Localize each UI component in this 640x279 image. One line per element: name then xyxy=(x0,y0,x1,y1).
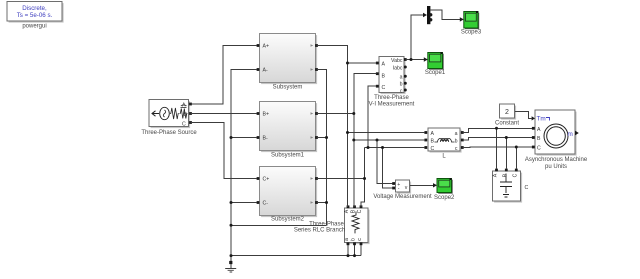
subsystem1 block (phase B) xyxy=(260,102,318,159)
svg-text:Three-Phase Source: Three-Phase Source xyxy=(141,130,197,136)
subsystem1 B+ in port xyxy=(257,112,260,115)
svg-text:Tm: Tm xyxy=(537,116,546,123)
svg-text:c: c xyxy=(357,238,363,241)
demux output to scope3 xyxy=(430,10,460,19)
junction Vabc to demux xyxy=(410,58,413,61)
subsystem2 out1 port xyxy=(315,177,318,180)
junction RLC bottom b on neutral xyxy=(353,254,356,257)
V-I measurement Iabc unconnected port xyxy=(404,66,407,69)
neutral branch to out2 return bus xyxy=(231,224,327,226)
neutral junction at bottom wire xyxy=(230,254,233,257)
L out port a xyxy=(461,131,464,134)
subsystem1 out1 wire to node B xyxy=(317,113,354,115)
V-I measurement in port B xyxy=(376,72,379,75)
node C wire to L C xyxy=(365,147,425,149)
RLC branch top port C xyxy=(360,205,363,208)
svg-text:Subsystem: Subsystem xyxy=(273,85,303,91)
voltage measurement + port xyxy=(392,182,395,185)
junction C-block tap A xyxy=(495,127,498,130)
neutral junction at B- xyxy=(230,136,233,139)
voltage measurement - tap wire xyxy=(383,148,393,189)
L out port c xyxy=(461,146,464,149)
svg-text:B: B xyxy=(184,112,188,118)
machine m output arrow xyxy=(575,131,579,136)
svg-text:A: A xyxy=(493,173,499,177)
RLC bottom a to neutral xyxy=(347,245,349,256)
junction VM+ on L B line xyxy=(376,139,379,142)
svg-text:B-: B- xyxy=(263,136,268,142)
subsystem out2 port xyxy=(315,68,318,71)
subsystem2 out1 wire to node C xyxy=(317,178,365,180)
svg-text:b: b xyxy=(455,139,458,145)
subsystem2 out2 wire xyxy=(317,202,327,204)
neutral net vertical wire xyxy=(231,70,257,262)
neutral junction at C- xyxy=(230,201,233,204)
machine Tm input arrow xyxy=(532,116,535,120)
V-I measurement in port C xyxy=(376,85,379,88)
tap down to C block B xyxy=(505,138,507,169)
machine port C xyxy=(532,146,535,149)
demux xyxy=(427,6,432,24)
V-I measurement b unconnected port xyxy=(404,82,407,85)
RLC branch bottom port c xyxy=(360,242,363,245)
node B tap to L B xyxy=(354,139,425,141)
svg-text:B: B xyxy=(382,73,386,79)
L a to machine A wire xyxy=(463,128,533,132)
RLC branch bottom port a xyxy=(347,242,350,245)
ground symbol xyxy=(225,264,236,272)
svg-text:Subsystem1: Subsystem1 xyxy=(271,153,305,159)
C block top port B xyxy=(505,169,508,172)
svg-text:A: A xyxy=(382,61,386,67)
inductor block L xyxy=(428,128,462,159)
neutral bottom wire to RLC branch xyxy=(231,255,361,257)
svg-text:A: A xyxy=(537,127,541,133)
svg-text:Scope3: Scope3 xyxy=(461,30,482,36)
subsystem1 out1 port xyxy=(315,112,318,115)
node A tap to L A xyxy=(348,132,425,134)
return bus junction subsystem2 out2 xyxy=(325,201,328,204)
svg-text:a: a xyxy=(400,74,403,80)
V-I measurement a unconnected port xyxy=(404,75,407,78)
svg-text:Series RLC Branch: Series RLC Branch xyxy=(294,227,345,233)
machine port B xyxy=(532,136,535,139)
voltage measurement block xyxy=(373,180,432,200)
svg-text:C-: C- xyxy=(263,201,269,207)
machine port A xyxy=(532,127,535,130)
svg-text:pu Units: pu Units xyxy=(545,164,567,170)
subsystem1 B- in port xyxy=(257,136,260,139)
svg-text:b: b xyxy=(400,81,403,87)
node B wire: V-I B corner down to RLC B xyxy=(354,74,377,207)
node C junction subsystem2 out1 xyxy=(363,177,366,180)
tap down to C block A xyxy=(496,128,498,168)
svg-text:B: B xyxy=(537,136,541,142)
L in port B xyxy=(424,139,427,142)
return bus junction subsystem1 out2 xyxy=(325,136,328,139)
svg-text:B+: B+ xyxy=(263,112,270,118)
svg-text:a: a xyxy=(344,238,350,241)
svg-text:powergui: powergui xyxy=(22,24,46,30)
C block top port A xyxy=(495,169,498,172)
subsystem2 C- in port xyxy=(257,201,260,204)
svg-text:Subsystem2: Subsystem2 xyxy=(271,217,305,223)
svg-text:Ts = 5e-06 s.: Ts = 5e-06 s. xyxy=(17,12,53,19)
three-phase source port B xyxy=(189,112,192,115)
subsystem A+ in port xyxy=(257,44,260,47)
svg-text:C: C xyxy=(382,85,386,91)
svg-text:Scope2: Scope2 xyxy=(434,195,455,201)
subsystem out1 port xyxy=(315,44,318,47)
wire source A to subsystem A+ xyxy=(191,46,258,105)
svg-text:Three-Phase: Three-Phase xyxy=(374,95,409,101)
constant block value 2 xyxy=(495,104,519,127)
junction V-I C on L C line xyxy=(367,146,370,149)
V-I C input wire xyxy=(368,86,376,147)
scope2 xyxy=(434,178,455,201)
RLC branch top port B xyxy=(353,205,356,208)
V-I measurement Vabc out port xyxy=(404,58,407,61)
Vabc tap up to demux xyxy=(411,15,423,60)
node C vertical down to RLC C xyxy=(361,148,365,207)
constant to machine Tm wire xyxy=(515,112,532,119)
svg-text:C: C xyxy=(525,185,529,191)
svg-text:2: 2 xyxy=(505,109,509,116)
svg-text:C: C xyxy=(357,209,363,213)
neutral branch to subsystem1 B- xyxy=(231,137,257,139)
junction C-block tap C xyxy=(515,146,518,149)
three-phase series RLC branch block xyxy=(294,208,370,244)
svg-text:v: v xyxy=(405,185,408,191)
svg-text:C+: C+ xyxy=(263,177,270,183)
L in port C xyxy=(424,146,427,149)
subsystem1 out2 port xyxy=(315,136,318,139)
V-I measurement in port A xyxy=(376,62,379,65)
svg-text:c: c xyxy=(455,146,458,152)
svg-text:A-: A- xyxy=(263,68,268,74)
svg-text:C: C xyxy=(182,122,186,128)
asynchronous machine block xyxy=(525,110,588,170)
voltage measurement output to scope2 xyxy=(410,184,434,186)
three-phase source port A xyxy=(189,103,192,106)
V-I measurement c unconnected port xyxy=(404,89,407,92)
svg-text:Discrete,: Discrete, xyxy=(22,5,47,12)
svg-text:C: C xyxy=(431,146,435,152)
RLC bottom c to neutral xyxy=(360,245,362,256)
RLC bottom b to neutral xyxy=(354,245,356,256)
node A junction to L A xyxy=(346,131,349,134)
svg-text:Voltage Measurement: Voltage Measurement xyxy=(373,194,432,200)
svg-text:b: b xyxy=(351,238,357,241)
neutral junction at return bus xyxy=(230,224,233,227)
svg-text:Asynchronous Machine: Asynchronous Machine xyxy=(525,157,588,163)
node A tap to V-I A xyxy=(348,62,377,64)
svg-text:V-I Measurement: V-I Measurement xyxy=(369,102,415,108)
voltage measurement + tap wire xyxy=(377,140,393,184)
wire source B to subsystem1 B+ xyxy=(191,113,258,115)
capacitor bank block C xyxy=(493,171,529,203)
L out port b xyxy=(461,139,464,142)
junction C-block tap B xyxy=(505,136,508,139)
three-phase source port C xyxy=(189,121,192,124)
svg-text:Iabc: Iabc xyxy=(393,65,403,71)
RLC branch top port A xyxy=(347,205,350,208)
svg-text:B: B xyxy=(431,139,435,145)
svg-text:Constant: Constant xyxy=(495,121,519,127)
L in port A xyxy=(424,131,427,134)
Vabc wire to scope1 xyxy=(406,59,425,61)
junction RLC bottom a on neutral xyxy=(347,254,350,257)
svg-text:a: a xyxy=(455,131,458,137)
svg-text:Vabc: Vabc xyxy=(391,58,403,64)
out2 return bus vertical xyxy=(317,70,327,226)
scope3 xyxy=(461,11,482,36)
three-phase V-I measurement block xyxy=(369,57,415,108)
ground port xyxy=(229,261,232,264)
svg-text:c: c xyxy=(400,88,403,94)
node A junction to V-I A xyxy=(346,62,349,65)
subsystem1 out2 wire xyxy=(317,137,327,139)
subsystem2 C+ in port xyxy=(257,177,260,180)
L b to machine B wire xyxy=(463,138,533,141)
three-phase source block xyxy=(141,100,197,136)
L c to machine C wire xyxy=(463,146,533,148)
wire source C to subsystem2 C+ xyxy=(191,123,258,179)
C block top port C xyxy=(515,169,518,172)
subsystem A- in port xyxy=(257,68,260,71)
scope1 xyxy=(425,52,446,76)
svg-text:C: C xyxy=(512,173,518,177)
svg-text:B: B xyxy=(351,209,357,213)
RLC branch bottom port b xyxy=(353,242,356,245)
svg-text:A: A xyxy=(344,209,350,213)
svg-text:A: A xyxy=(182,103,186,109)
junction VM- on L C line xyxy=(381,146,384,149)
svg-text:A+: A+ xyxy=(263,44,270,50)
svg-text:-: - xyxy=(398,186,400,192)
node B junction subsystem1 out1 xyxy=(352,112,355,115)
subsystem block (phase A) xyxy=(260,34,318,91)
neutral branch to subsystem2 C- xyxy=(231,202,257,204)
node B junction to L B xyxy=(352,139,355,142)
subsystem2 out2 port xyxy=(315,201,318,204)
tap down to C block C xyxy=(515,147,517,169)
svg-text:Scope1: Scope1 xyxy=(425,70,446,76)
svg-text:A: A xyxy=(431,131,435,137)
subsystem2 block (phase C) xyxy=(260,167,318,223)
voltage measurement - port xyxy=(392,187,395,190)
powergui block xyxy=(7,2,64,30)
svg-text:m: m xyxy=(568,131,573,138)
svg-text:C: C xyxy=(537,146,541,152)
node A wire: subsystem out1 down to RLC A xyxy=(317,46,348,207)
svg-text:B: B xyxy=(502,173,508,177)
